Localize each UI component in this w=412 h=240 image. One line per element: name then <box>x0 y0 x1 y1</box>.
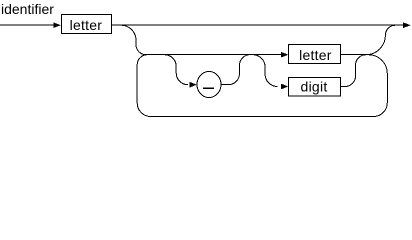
wire split down to digit row <box>253 55 278 87</box>
box letter 1 <box>62 15 112 34</box>
wire circle exit up to row2 <box>221 55 250 85</box>
arrow exit right <box>403 22 411 28</box>
arrow into digit <box>281 84 288 90</box>
wire row2 up to main line before exit arrow <box>366 25 395 54</box>
box digit <box>289 77 341 95</box>
svg-text:digit: digit <box>301 79 328 95</box>
arrow into letter 1 <box>54 22 61 28</box>
wire letter2 box exit <box>341 54 367 56</box>
underscore dash inside circle <box>203 87 214 89</box>
svg-text:letter: letter <box>299 47 332 63</box>
wire row2 line <box>146 54 281 56</box>
wire main line to exit <box>111 24 403 26</box>
arrow into underscore circle <box>190 82 197 88</box>
svg-text:identifier: identifier <box>1 1 54 17</box>
svg-text:letter: letter <box>70 17 103 33</box>
arrow into letter 2 <box>281 52 288 58</box>
wire dip down to underscore circle <box>165 55 188 85</box>
wire digit box exit curve up to row2 <box>341 55 367 87</box>
box letter 2 <box>289 45 341 64</box>
wire repeat loop <box>137 55 387 117</box>
circle underscore <box>197 72 221 98</box>
wire entry curve from main line down to row2 <box>121 25 146 55</box>
wire entry line <box>0 24 54 26</box>
